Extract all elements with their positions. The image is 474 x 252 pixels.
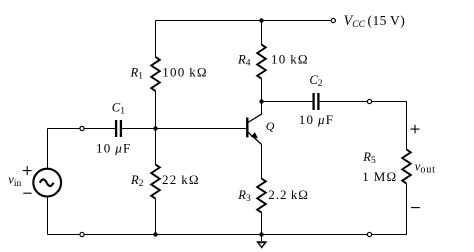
resistor R2 (151, 165, 160, 199)
svg-text:Q: Q (266, 119, 275, 133)
svg-text:vout: vout (415, 159, 436, 175)
node collector / C2 junction (259, 99, 263, 103)
svg-text:R3: R3 (237, 188, 251, 204)
svg-text:VCC: VCC (344, 13, 366, 30)
wire C2 right segment (320, 101, 407, 103)
terminal VCC open circle (331, 18, 335, 22)
svg-text:10 μF: 10 μF (299, 112, 334, 127)
wire R1 top stub (155, 21, 157, 58)
node base/R1/R2/C1 junction (153, 126, 157, 130)
terminal output top open circle (367, 99, 371, 103)
wire input left segment to C1 (48, 128, 116, 130)
terminal input top open circle (80, 126, 84, 130)
source vin AC symbol (33, 169, 61, 197)
label minus (vout) (411, 207, 420, 209)
resistor R1 (151, 57, 160, 91)
svg-text:(15 V): (15 V) (368, 13, 406, 28)
svg-text:1 MΩ: 1 MΩ (362, 169, 397, 184)
svg-text:10 μF: 10 μF (96, 141, 131, 156)
wire top rail from R1 top to VCC terminal (156, 20, 331, 22)
svg-text:22 kΩ: 22 kΩ (162, 172, 200, 187)
source vin branch: top wire (47, 129, 49, 169)
wire R1 bottom stub (155, 91, 157, 129)
svg-text:R2: R2 (130, 173, 144, 189)
wire emitter vertical (261, 144, 263, 179)
wire right vertical bottom (406, 184, 408, 235)
label minus (vin) (23, 192, 31, 194)
node R3 / ground junction (259, 232, 263, 236)
wire bottom rail (48, 234, 407, 236)
svg-text:100 kΩ: 100 kΩ (162, 64, 207, 79)
svg-text:R5: R5 (362, 150, 376, 166)
terminal input bottom open circle (80, 232, 84, 236)
node VCC rail / R4 junction (259, 18, 263, 22)
svg-text:10 kΩ: 10 kΩ (271, 52, 309, 67)
transistor Q (247, 114, 261, 144)
svg-text:C2: C2 (309, 73, 322, 89)
resistor R4 (257, 45, 266, 79)
svg-text:2.2 kΩ: 2.2 kΩ (268, 187, 308, 202)
wire R2 top stub (155, 129, 157, 165)
svg-text:C1: C1 (112, 100, 125, 116)
wire R4 bottom stub to collector node (261, 79, 263, 102)
wire C2 left segment (262, 101, 313, 103)
capacitor C1 (116, 120, 121, 137)
wire C1 to base (122, 128, 246, 130)
wire R2 bottom stub (155, 199, 157, 235)
wire right vertical top (406, 102, 408, 150)
ground (256, 235, 267, 249)
svg-text:R1: R1 (130, 65, 144, 81)
wire R4 top stub (261, 21, 263, 45)
resistor R5 (402, 150, 411, 184)
terminal output bottom open circle (367, 232, 371, 236)
source vin bottom wire (47, 197, 49, 235)
svg-text:R4: R4 (237, 53, 251, 69)
wire collector vertical (261, 102, 263, 115)
svg-text:vin: vin (8, 173, 21, 189)
resistor R3 (257, 179, 266, 213)
node R2 / bottom rail junction (153, 232, 157, 236)
wire R3 bottom stub (261, 213, 263, 235)
label plus (vin) (23, 166, 32, 175)
capacitor C2 (314, 93, 319, 110)
label plus (vout) (411, 125, 420, 134)
